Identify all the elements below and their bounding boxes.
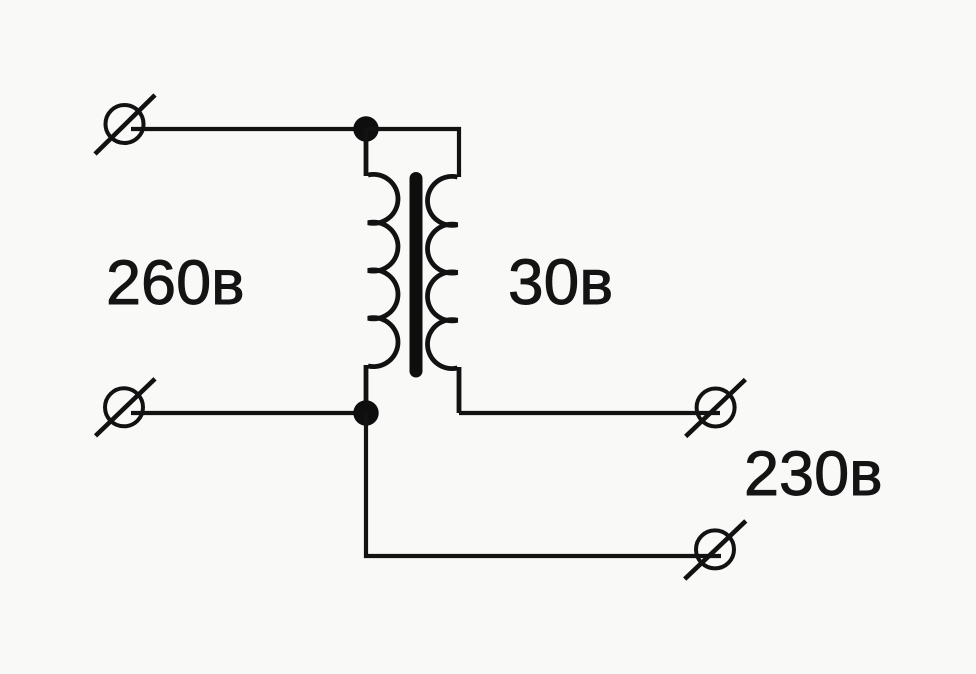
svg-text:30в: 30в <box>508 246 613 318</box>
terminal X2 (bottom-left) <box>96 379 156 436</box>
svg-text:230в: 230в <box>744 439 883 509</box>
transformer T1 core <box>410 179 423 372</box>
terminal X1 (top-left) <box>95 95 155 154</box>
terminal X4 (bottom-right) <box>685 521 746 579</box>
wire X1 to top node <box>131 127 366 131</box>
wire top node to right winding <box>366 129 459 177</box>
wire X2 to bottom node <box>131 411 366 415</box>
transformer T1 right winding (secondary) <box>428 176 459 413</box>
wire bottom node to terminal X4 <box>366 413 721 556</box>
node B (bottom junction dot) <box>353 400 378 425</box>
transformer T1 left winding (primary) <box>366 129 398 413</box>
svg-text:260в: 260в <box>106 248 245 318</box>
node A (top junction dot) <box>353 116 378 141</box>
terminal X3 (right-middle) <box>686 380 746 437</box>
wire right winding to terminal X3 <box>459 411 720 415</box>
